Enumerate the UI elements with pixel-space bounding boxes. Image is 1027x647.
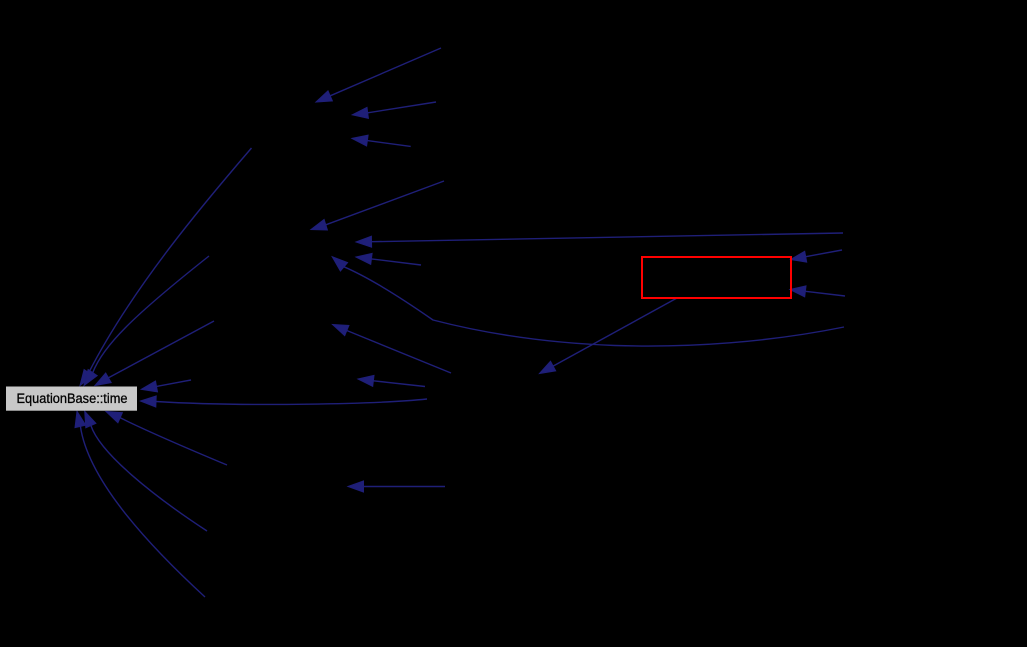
node EquationBase::time (current node, grey box) [6,387,137,411]
edge: caller -> EquationBase::time (lower straight) [106,412,227,466]
edge: far right caller -> red node (upper) [791,250,843,262]
edge: far right caller -> red node (lower) [790,286,845,297]
edge: caller A -> EquationBase::time (long upper curve) [80,148,252,386]
edge: node C caller -> node B lower [333,325,452,374]
edge: caller C -> EquationBase::time (long horizontal) [141,396,428,407]
edge: node C -> hidden node (small left arrow) [358,375,425,386]
edge: caller -> EquationBase::time (straight upper) [95,321,214,386]
edge: highlighted red node -> node C [540,298,678,374]
edge: caller -> EquationBase::time (lower curve 1) [85,411,207,531]
edge: caller -> node A (shallow up) [352,135,411,146]
edge: caller -> node B (steep from upper right) [311,181,444,230]
edge: caller -> EquationBase::time (short right) [141,380,191,392]
edge: caller -> EquationBase::time (mid diagonal) [84,256,209,386]
node: highlighted caller (red outline) [642,257,791,298]
svg-text:EquationBase::time: EquationBase::time [17,391,128,407]
edge: caller -> node B (short) [356,253,421,265]
edge: caller -> hidden node (bottom middle) [348,481,445,492]
edge: caller -> node A (shallow down) [352,102,436,118]
edge: caller -> EquationBase::time (lower curve 2) [75,411,205,597]
edge: far right caller -> node B (long horizontal) [356,233,843,247]
edge: far right caller -> node B (long S curve) [332,257,844,346]
edge: caller -> node A (steep) [316,48,441,102]
